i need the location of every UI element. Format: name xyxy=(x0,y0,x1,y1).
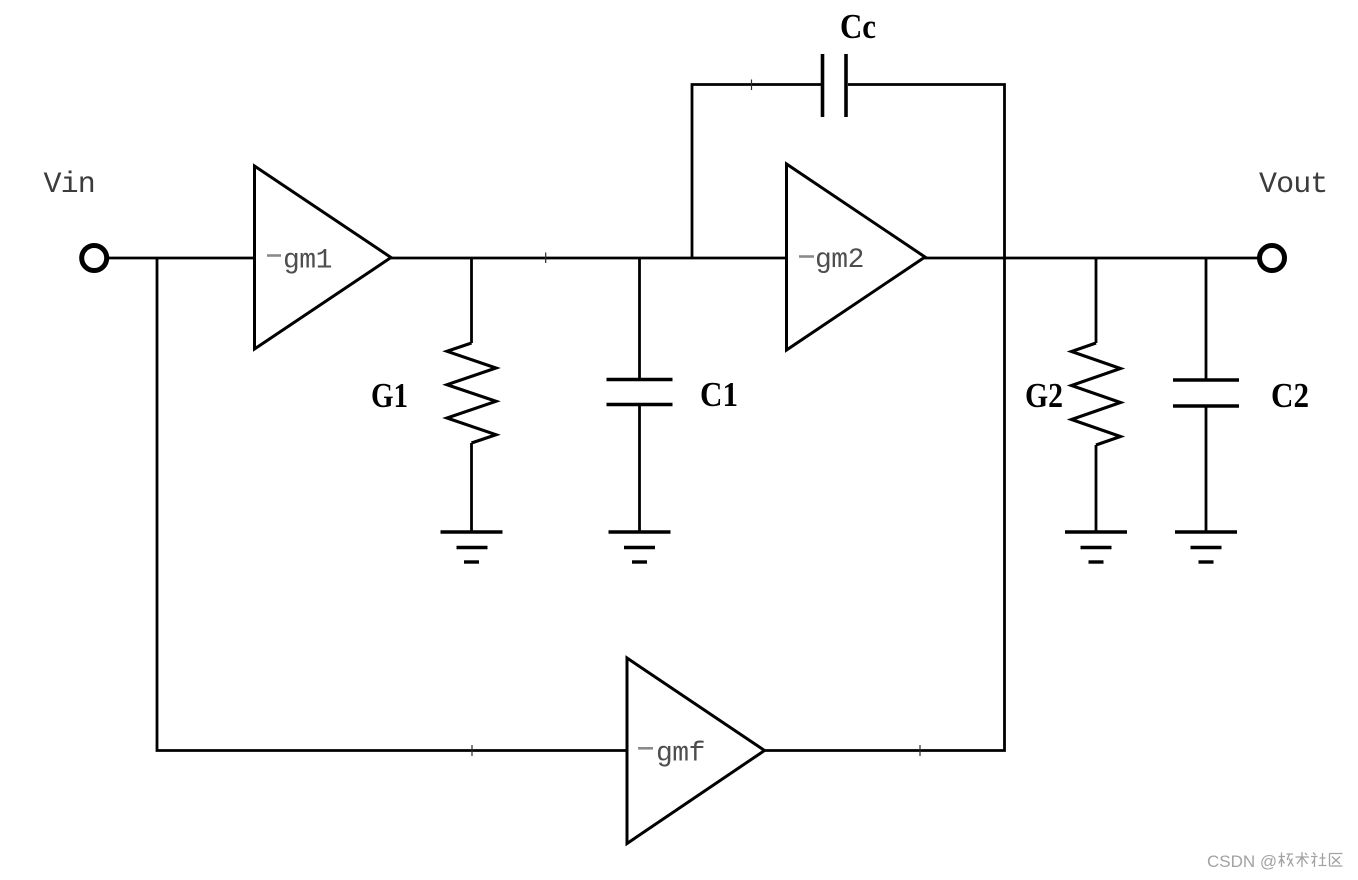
svg-text:gm2: gm2 xyxy=(815,245,864,276)
wire Vin feedforward: down and across to gmf input xyxy=(157,258,627,751)
watermark chinese glyphs xyxy=(1279,852,1343,867)
wire junction tick (bottom feed wire) xyxy=(471,745,473,756)
svg-text:CSDN @: CSDN @ xyxy=(1207,852,1277,871)
ground (G2) xyxy=(1065,532,1127,562)
wire gm2 output to Vout (node Vout) xyxy=(924,257,1260,260)
wire Vin to gm1 input xyxy=(105,257,255,260)
svg-text:G2: G2 xyxy=(1025,376,1063,415)
op-amp -gm1 xyxy=(255,166,392,349)
value label -gm2 xyxy=(799,245,864,276)
wire junction tick (Cc top wire) xyxy=(751,80,753,91)
wire node V1 up to Cc left plate xyxy=(692,85,821,259)
svg-text:C1: C1 xyxy=(700,375,738,414)
ground (G1) xyxy=(441,532,503,562)
value label -gmf xyxy=(638,739,705,770)
svg-text:Vout: Vout xyxy=(1259,168,1327,202)
value label -gm1 xyxy=(267,246,332,277)
wire junction tick (gmf output wire) xyxy=(919,745,921,756)
svg-text:C2: C2 xyxy=(1271,376,1309,415)
svg-text:Cc: Cc xyxy=(840,7,876,46)
svg-text:Vin: Vin xyxy=(44,168,95,202)
ground (C2) xyxy=(1175,532,1237,562)
op-amp -gmf xyxy=(627,658,765,844)
svg-text:gmf: gmf xyxy=(656,739,705,770)
resistor G2 xyxy=(1072,258,1121,532)
wire gmf output up to output node and Cc right plate xyxy=(764,85,1005,751)
capacitor Cc xyxy=(823,54,847,117)
ground (C1) xyxy=(609,532,671,562)
wire junction tick (node V1 segment) xyxy=(545,253,547,264)
input terminal (Vin port) xyxy=(82,246,107,271)
capacitor C1 xyxy=(607,258,673,532)
op-amp -gm2 xyxy=(787,164,926,350)
capacitor C2 xyxy=(1173,258,1239,532)
wire gm1 output to gm2 input (node V1) xyxy=(390,257,787,260)
resistor G1 xyxy=(447,258,496,532)
svg-text:G1: G1 xyxy=(371,376,408,415)
svg-text:gm1: gm1 xyxy=(283,246,332,277)
output terminal (Vout port) xyxy=(1260,246,1285,271)
